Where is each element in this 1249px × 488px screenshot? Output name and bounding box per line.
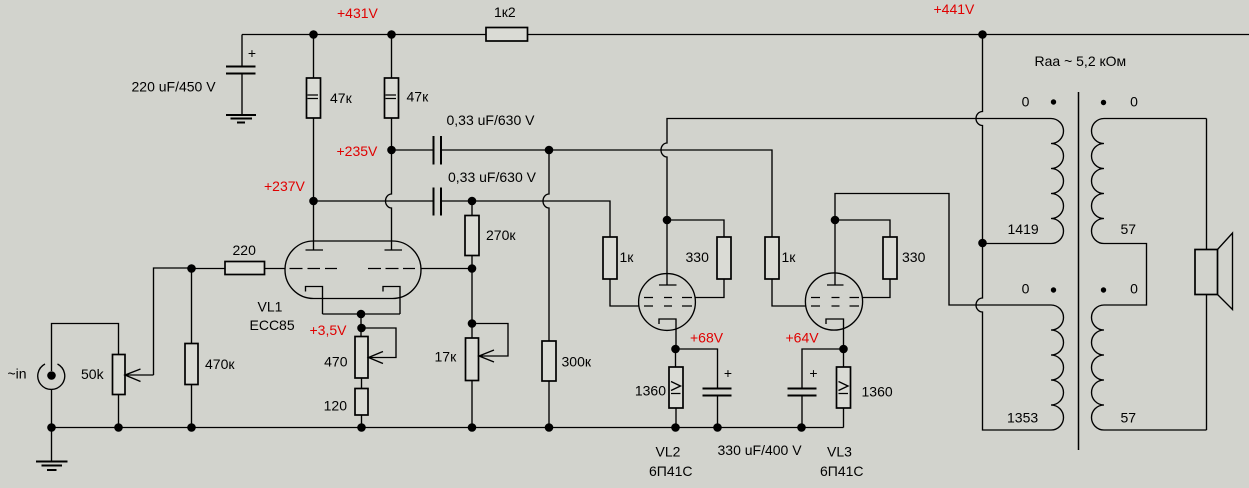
speaker LS	[1195, 250, 1218, 295]
svg-text:VL3: VL3	[827, 444, 852, 460]
resistor R 47k #1	[307, 78, 321, 118]
junction ground bus / 1360 VL2	[671, 423, 680, 432]
svg-text:1к: 1к	[782, 249, 797, 265]
svg-text:470: 470	[324, 354, 348, 370]
resistor R 17k (trimmer)	[466, 338, 479, 381]
junction cap1 out / 300k	[545, 146, 554, 155]
VL2 grid dashes g1	[644, 305, 692, 307]
ground (filter cap)	[226, 115, 256, 123]
wire 470k branch	[191, 269, 193, 428]
wire cathode node down	[360, 314, 362, 337]
wire 17k branch	[471, 269, 473, 339]
wire +235V to coupling cap1	[392, 149, 434, 151]
VL3 cathode	[826, 319, 844, 349]
VL1 right plate	[385, 249, 403, 251]
wire input connector top	[52, 324, 119, 372]
capacitor C 0,33uF #2	[434, 188, 442, 216]
resistor R 120	[355, 389, 368, 416]
svg-text:1419: 1419	[1008, 221, 1039, 237]
svg-text:300к: 300к	[562, 354, 592, 370]
transformer primary winding 1419	[983, 119, 1064, 244]
svg-text:330: 330	[686, 249, 710, 265]
svg-text:0: 0	[1022, 94, 1030, 110]
svg-text:0: 0	[1022, 281, 1030, 297]
svg-text:+235V: +235V	[337, 143, 379, 159]
wire filter cap branch	[241, 35, 243, 67]
wire 50k bottom	[118, 395, 120, 428]
svg-text:+: +	[809, 365, 817, 381]
junction ground bus / 50k	[114, 423, 123, 432]
svg-text:6П41С: 6П41С	[820, 463, 864, 479]
junction ground bus / 300k	[545, 423, 554, 432]
wire cap to ground	[241, 74, 243, 115]
tube VL1 envelope	[285, 241, 421, 299]
resistor R 1360 (VL3)	[837, 367, 851, 408]
svg-text:Raa ~ 5,2 кОм: Raa ~ 5,2 кОм	[1035, 53, 1127, 69]
wire VL3 cathode to bypass cap	[802, 349, 844, 428]
junction VL3 anode node	[831, 216, 840, 225]
wire VL2 anode up to transformer w1, hop over cap1 line	[661, 119, 1051, 221]
capacitor C1 220uF/450V plates	[226, 67, 256, 74]
resistor R 330 (VL2)	[717, 237, 731, 279]
svg-text:+68V: +68V	[690, 330, 724, 346]
capacitor C 0,33uF #1	[434, 136, 442, 165]
wire 47k#2 to VL1 right plate with hop over y=201	[386, 150, 392, 250]
VL2 cathode	[659, 319, 676, 349]
svg-text:0: 0	[1130, 281, 1138, 297]
wire B+ vertical to transformer with hops	[976, 35, 1051, 431]
transformer primary winding 1353	[1051, 305, 1064, 430]
wire 47k #2 branch upper	[391, 35, 393, 151]
potentiometer R 50k	[113, 355, 126, 395]
resistor R 300k	[542, 341, 556, 381]
svg-text:VL2: VL2	[656, 444, 681, 460]
VL1 grid dashed line right triode	[368, 268, 415, 270]
wire VL1 left grid from 220 resistor	[265, 268, 286, 270]
VL2 plate	[659, 220, 677, 285]
node +235V junction	[387, 146, 396, 155]
svg-text:270к: 270к	[486, 227, 516, 243]
wire VL1 right grid to 270k node	[421, 268, 472, 270]
svg-text:47к: 47к	[407, 89, 430, 105]
junction transformer B+ / winding 1419	[978, 239, 987, 248]
input connector center pin	[47, 371, 56, 380]
capacitor C 330uF (VL3) plates	[788, 389, 817, 396]
svg-text:~in: ~in	[8, 366, 27, 382]
junction ground bus / 120	[357, 423, 366, 432]
wire cap2 out to 270k junction and VL2 grid resistor	[441, 201, 610, 237]
junction ground bus / 17k	[468, 423, 477, 432]
junction ground bus / cap VL2	[713, 423, 722, 432]
phase dot secondary bottom	[1101, 287, 1106, 292]
wire VL2 cathode node	[675, 349, 678, 428]
wire VL3 screen to 330	[863, 279, 891, 298]
svg-text:VL1: VL1	[258, 299, 283, 315]
svg-text:1360: 1360	[862, 384, 893, 400]
junction top rail / 47k#2	[387, 30, 396, 39]
junction VL1 cathodes	[357, 310, 366, 319]
svg-text:+: +	[248, 45, 256, 61]
svg-text:17к: 17к	[435, 349, 458, 365]
VL1 left cathode	[306, 287, 323, 315]
resistor R 470k	[185, 344, 198, 385]
svg-text:57: 57	[1121, 221, 1137, 237]
wire grid node to 220	[192, 268, 226, 270]
svg-text:1к: 1к	[620, 249, 635, 265]
VL2 grid dashes g2	[644, 297, 692, 299]
node +68V VL2 cathode	[671, 345, 680, 354]
transformer secondary winding 57 bottom	[1092, 305, 1207, 430]
VL3 grid dashes g1	[811, 305, 859, 307]
wire VL2 screen to 330	[696, 279, 725, 298]
phase dot winding 1419	[1051, 99, 1056, 104]
svg-text:+237V: +237V	[264, 178, 306, 194]
svg-text:+431V: +431V	[337, 5, 379, 21]
wire top rail +431V/+441V	[242, 34, 1249, 36]
VL3 plate	[827, 220, 844, 285]
VL1 right cathode	[383, 287, 400, 315]
junction 17k wiper	[468, 319, 477, 328]
resistor R 220	[225, 262, 265, 275]
wire 120 to rail	[361, 415, 363, 428]
VL3 grid dashes g2	[811, 297, 859, 299]
wire 270k top lead	[471, 201, 473, 216]
transformer core	[1078, 92, 1080, 450]
wire 47k R1 branch	[313, 35, 315, 251]
resistor R 1360 (VL2)	[669, 367, 683, 408]
wiper loop 17k	[472, 324, 508, 363]
svg-text:+441V: +441V	[934, 1, 976, 17]
50k wiper arrow	[125, 369, 154, 382]
wire 270k bottom to VL1 right grid node	[471, 256, 473, 269]
junction ground bus / input	[47, 423, 56, 432]
wire VL1 cathodes join	[323, 313, 401, 315]
svg-text:6П41С: 6П41С	[649, 463, 693, 479]
node +237V junction	[309, 197, 318, 206]
junction top rail / 47k#1	[309, 30, 318, 39]
resistor R 1k2	[486, 28, 528, 42]
svg-text:330: 330	[902, 249, 926, 265]
svg-text:+64V: +64V	[786, 330, 820, 346]
svg-text:1360: 1360	[635, 383, 666, 399]
svg-text:1к2: 1к2	[494, 4, 516, 20]
junction top rail +441V / transformer feed	[978, 30, 987, 39]
resistor R 470 (trimmer)	[355, 337, 368, 379]
wire cap1 out to VL3 grid resistor, hop over x=667 handled on vertical	[441, 150, 772, 237]
svg-text:+3,5V: +3,5V	[310, 322, 348, 338]
tube VL3 envelope	[805, 273, 862, 330]
svg-text:220: 220	[233, 242, 257, 258]
ground (input)	[36, 462, 68, 471]
svg-text:+: +	[724, 365, 732, 381]
svg-text:1353: 1353	[1007, 410, 1038, 426]
capacitor C 330uF (VL2) plates	[703, 389, 732, 396]
junction 470 wiper	[357, 324, 366, 333]
svg-text:ECC85: ECC85	[250, 317, 295, 333]
wire VL3 1k grid resistor lower	[772, 279, 806, 306]
svg-text:470к: 470к	[205, 356, 235, 372]
svg-text:120: 120	[324, 398, 348, 414]
tube VL2 envelope	[639, 274, 696, 331]
VL1 left plate	[306, 249, 324, 251]
svg-text:220 uF/450 V: 220 uF/450 V	[132, 79, 217, 95]
svg-text:50k: 50k	[81, 366, 105, 382]
wire speaker line	[1206, 119, 1208, 431]
svg-text:330 uF/400 V: 330 uF/400 V	[718, 442, 803, 458]
junction VL2 anode node	[663, 216, 672, 225]
wire 470 to 120	[361, 378, 363, 389]
svg-text:0,33 uF/630 V: 0,33 uF/630 V	[447, 112, 536, 128]
svg-text:57: 57	[1121, 410, 1137, 426]
wire 50k wiper up to grid node	[154, 268, 192, 375]
wire 300k bottom	[548, 381, 550, 428]
wire VL3 anode node to 330 top	[835, 220, 890, 237]
junction cap2 out / 270k	[468, 197, 477, 206]
junction 270k / VL1 right grid	[468, 264, 477, 273]
wire VL2 anode node to 330 top	[667, 220, 724, 237]
resistor R 270k	[465, 216, 479, 256]
wire input connector bottom	[51, 389, 53, 462]
phase dot secondary top	[1101, 100, 1106, 105]
junction ground bus / cap VL3	[797, 423, 806, 432]
wire VL2 1k grid resistor lower	[610, 279, 639, 306]
svg-text:0,33 uF/630 V: 0,33 uF/630 V	[448, 169, 537, 185]
resistor R 1k (VL2)	[603, 237, 617, 279]
wire VL3 anode up to transformer w2	[835, 194, 1051, 306]
wire 17k bottom	[471, 381, 473, 428]
wiper loop 470	[362, 328, 397, 364]
bottom rail ground bus	[52, 427, 844, 429]
svg-text:0: 0	[1130, 94, 1138, 110]
wire VL2 cathode to bypass cap	[676, 349, 718, 428]
wire +237V to coupling cap2	[314, 200, 434, 202]
svg-text:47к: 47к	[330, 90, 353, 106]
transformer secondary winding 57 top	[1092, 119, 1207, 306]
VL1 grid dashed line left triode	[290, 268, 338, 270]
resistor R 47k #2	[385, 78, 399, 118]
resistor R 1k (VL3)	[765, 237, 779, 279]
wire 300k branch from cap1 node with hop over y=201	[543, 150, 549, 341]
junction grid node VL1 left	[187, 264, 196, 273]
wire VL3 cathode node	[843, 349, 845, 428]
phase dot winding 1353	[1051, 287, 1056, 292]
resistor R 330 (VL3)	[883, 237, 897, 279]
node +64V VL3 cathode	[839, 345, 848, 354]
junction ground bus / 470k	[187, 423, 196, 432]
input connector ~in circle	[38, 364, 65, 389]
